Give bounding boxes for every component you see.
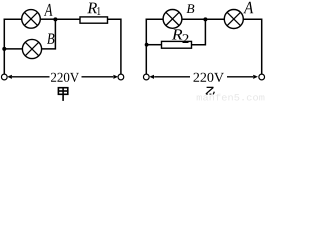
wire: right circuit top-left corner to lamp B [146,18,164,20]
terminal (bottom-left, circuit 甲) [1,74,7,80]
wire: lamp A to top-right corner and down (circuit 乙) [243,19,261,74]
lamp B (circuit 甲) [22,39,41,58]
wire: node to lamp A (circuit 乙) [205,18,224,20]
resistor R1 [80,17,108,23]
wire: node to resistor R1 [55,18,80,20]
terminal (bottom-right, circuit 乙) [259,74,265,80]
wire: left circuit top-left horizontal to lamp A [4,18,22,20]
wire: node to resistor R2 [146,44,161,46]
junction node (circuit 乙) [203,17,207,21]
wire: left side vertical (circuit 甲) [3,19,5,75]
terminal (bottom-left, circuit 乙) [143,74,149,80]
wire: lamp B to junction node (circuit 乙) [182,18,206,20]
resistor R2 [162,41,192,48]
label A (circuit 乙) [243,2,253,14]
junction node on left wire (circuit 甲) [2,47,6,51]
arrow right (220V span, circuit 乙) [227,75,258,79]
arrow left (220V span, circuit 乙) [149,75,190,79]
wire: left side vertical (circuit 乙) [145,19,147,75]
wire: left node to lamp B [4,48,22,50]
junction node (lamp branches join, circuit 甲) [53,17,57,21]
arrow right (220V span, circuit 甲) [82,75,119,79]
wire: lamp A to node [40,18,55,20]
wire: lamp B right, up to junction node [42,19,56,49]
arrow left (220V span, circuit 甲) [7,75,49,79]
wire: resistor R2 right, up to junction node (circuit 乙) [192,19,206,44]
value label 220V (circuit 甲) [51,73,79,82]
lamp A (circuit 甲) [22,10,41,29]
caption 乙 [206,87,214,94]
lamp B (circuit 乙) [163,10,182,29]
junction node on left wire (circuit 乙) [145,43,149,47]
label A (circuit 甲) [44,4,53,16]
label R2 [172,29,189,43]
label R1 [87,3,100,15]
wire: resistor R1 to top-right corner and down right side [108,19,121,74]
label B (circuit 甲) [47,34,54,44]
watermark manfen5.com [197,94,265,101]
label B (circuit 乙) [187,4,195,13]
lamp A (circuit 乙) [224,10,243,29]
value label 220V (circuit 乙) [194,73,224,82]
caption 甲 [58,88,67,101]
terminal (bottom-right, circuit 甲) [118,74,124,80]
